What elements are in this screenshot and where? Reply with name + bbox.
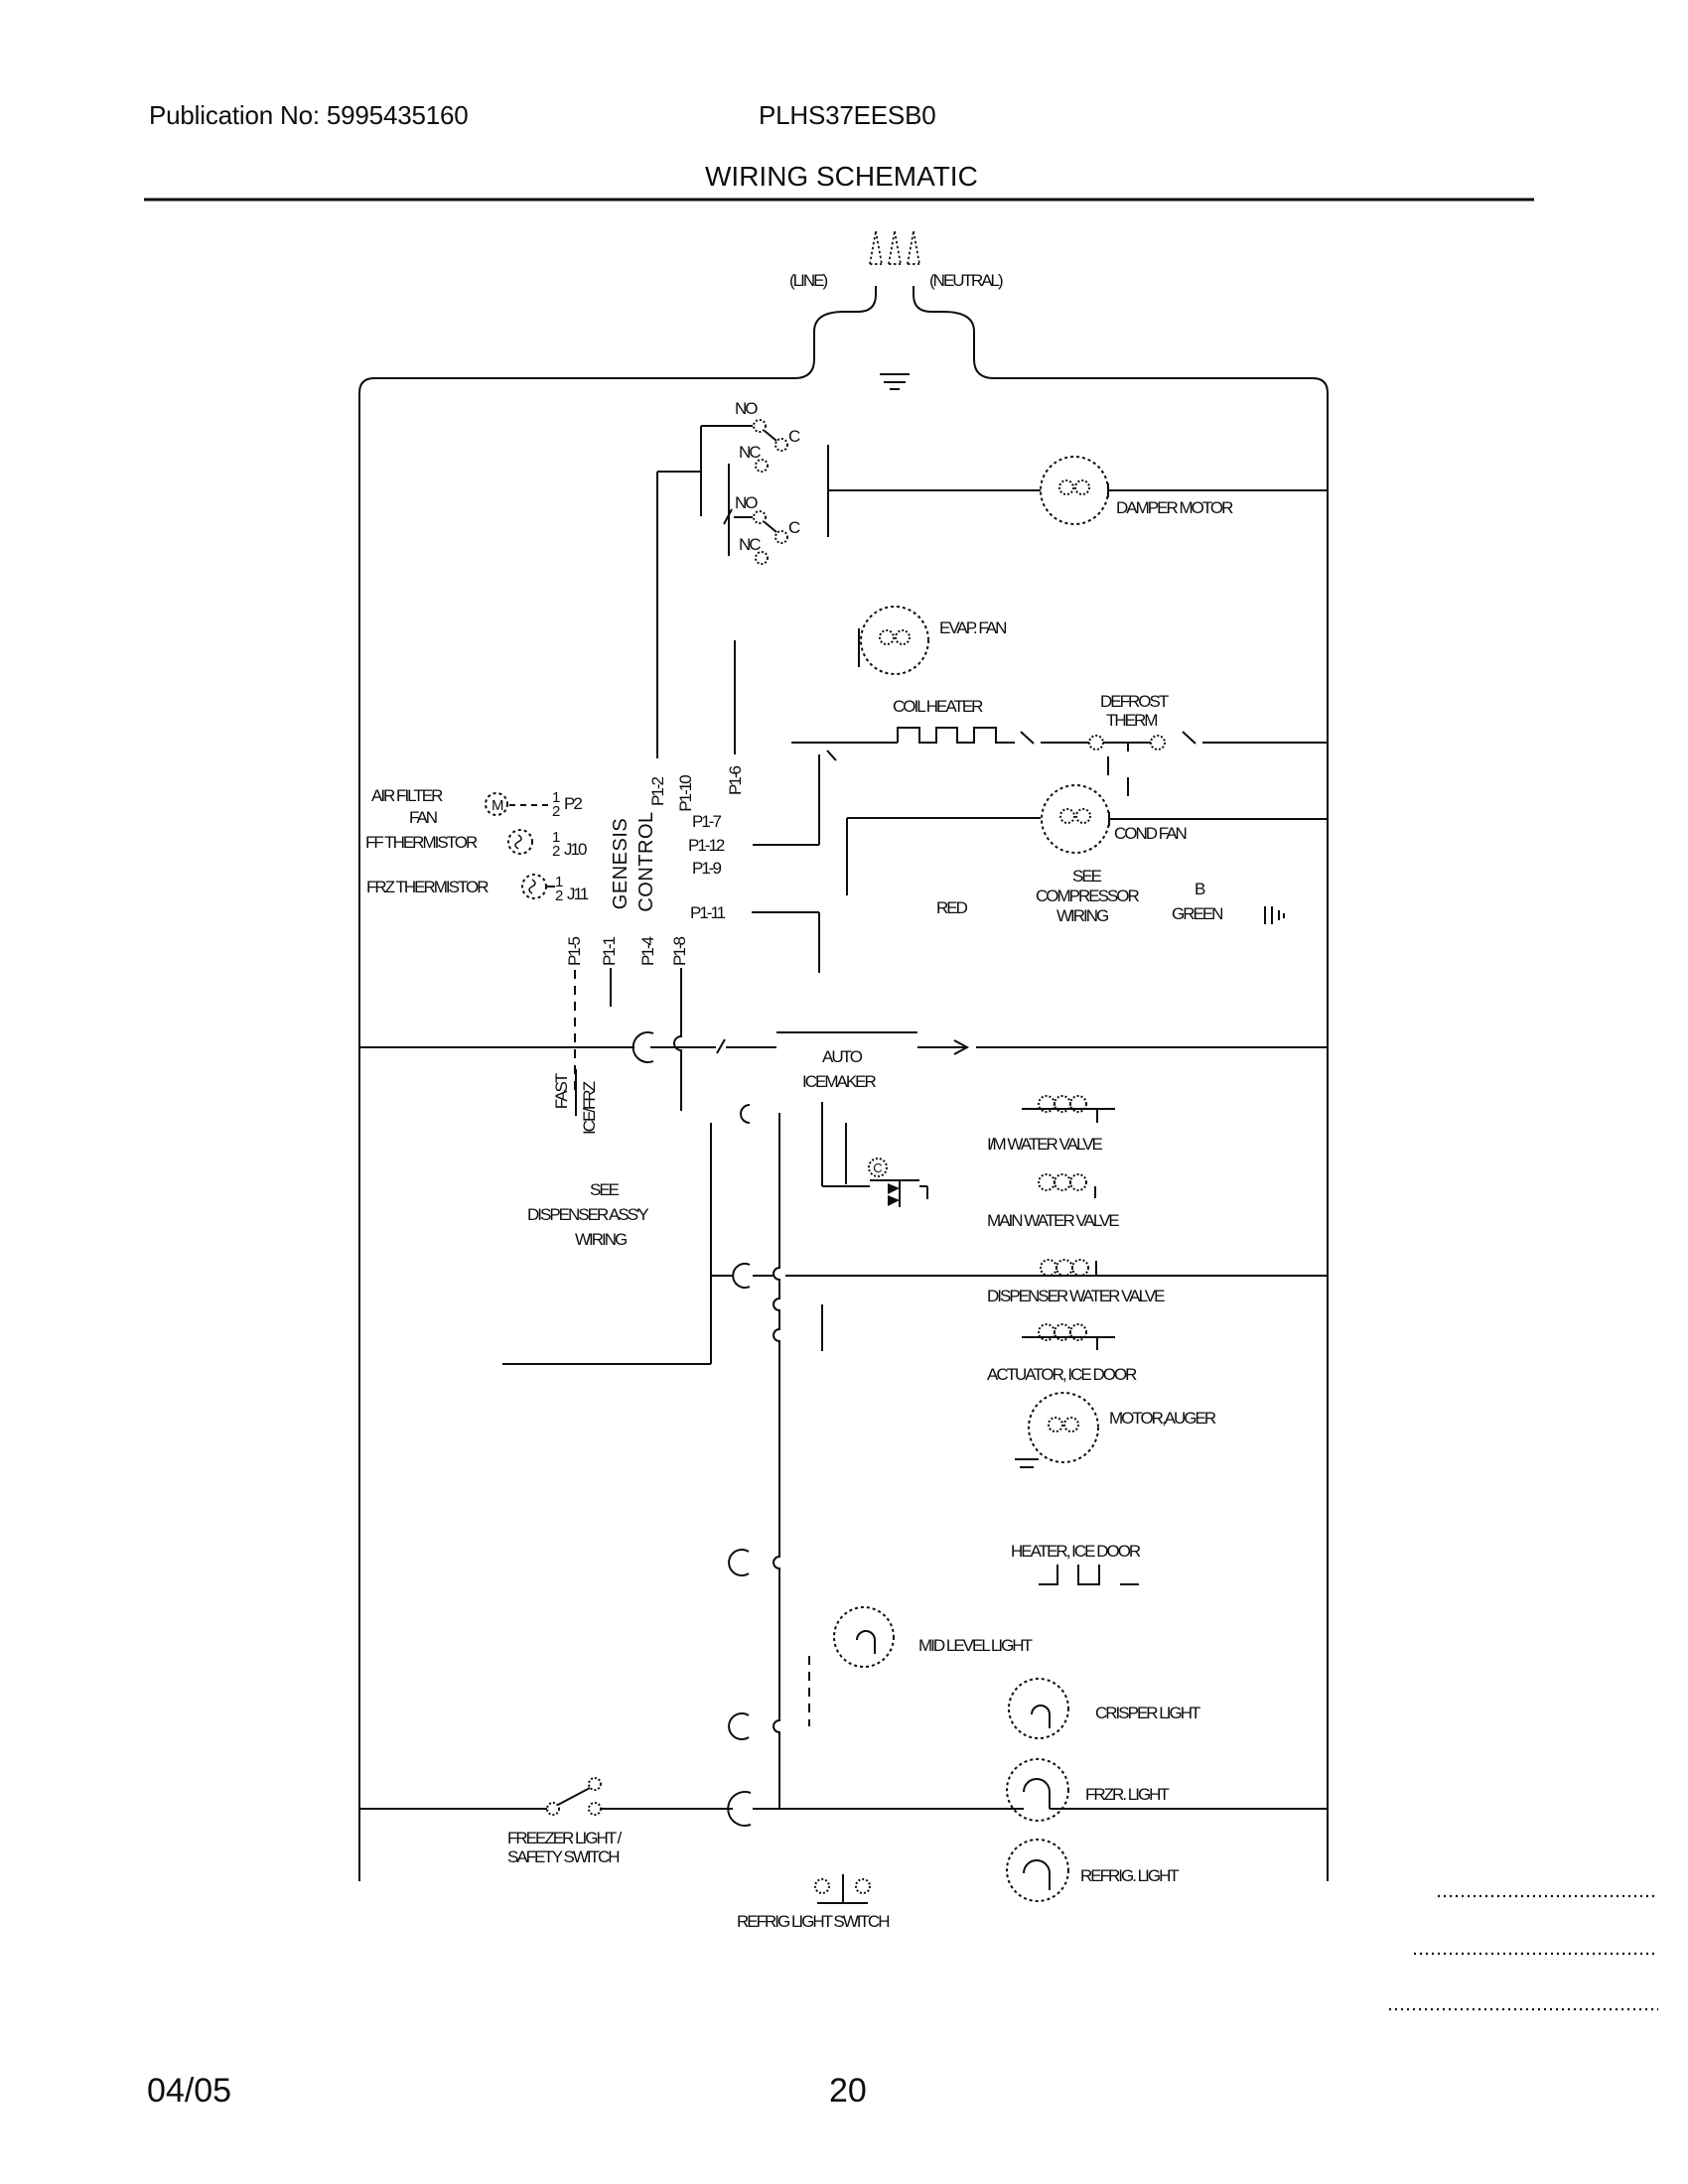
svg-text:J10: J10 (564, 840, 587, 859)
svg-text:REFRIG. LIGHT: REFRIG. LIGHT (1080, 1866, 1179, 1885)
svg-text:FREEZER LIGHT /: FREEZER LIGHT / (507, 1829, 623, 1847)
svg-text:WIRING SCHEMATIC: WIRING SCHEMATIC (705, 161, 978, 192)
svg-text:NC: NC (739, 535, 761, 554)
svg-text:P2: P2 (564, 794, 582, 813)
svg-text:P1-1: P1-1 (600, 937, 619, 966)
svg-text:P1-7: P1-7 (692, 812, 721, 831)
svg-text:GREEN: GREEN (1172, 904, 1222, 923)
svg-text:FF THERMISTOR: FF THERMISTOR (365, 833, 478, 852)
svg-text:AIR FILTER: AIR FILTER (371, 786, 443, 805)
svg-text:REFRIG LIGHT SWITCH: REFRIG LIGHT SWITCH (737, 1912, 889, 1931)
svg-text:DEFROST: DEFROST (1100, 692, 1169, 711)
svg-text:M: M (492, 797, 503, 814)
svg-text:P1-6: P1-6 (726, 766, 745, 795)
svg-text:COMPRESSOR: COMPRESSOR (1036, 887, 1140, 905)
svg-text:DAMPER MOTOR: DAMPER MOTOR (1116, 498, 1233, 517)
svg-text:SAFETY SWITCH: SAFETY SWITCH (507, 1847, 619, 1866)
svg-text:04/05: 04/05 (147, 2072, 231, 2110)
svg-text:2: 2 (552, 803, 560, 820)
svg-text:EVAP. FAN: EVAP. FAN (939, 618, 1006, 637)
svg-text:P1-4: P1-4 (638, 937, 657, 966)
svg-text:FAST: FAST (552, 1073, 571, 1109)
svg-text:RED: RED (936, 898, 968, 917)
svg-text:MOTOR,AUGER: MOTOR,AUGER (1109, 1409, 1216, 1428)
svg-text:NO: NO (735, 493, 758, 512)
svg-text:P1-9: P1-9 (692, 859, 721, 878)
svg-text:SEE: SEE (1072, 867, 1102, 886)
svg-text:MID LEVEL LIGHT: MID LEVEL LIGHT (918, 1636, 1033, 1655)
svg-text:AUTO: AUTO (822, 1047, 863, 1066)
svg-text:FAN: FAN (409, 808, 437, 827)
svg-text:(NEUTRAL): (NEUTRAL) (929, 271, 1003, 290)
svg-text:CRISPER LIGHT: CRISPER LIGHT (1095, 1704, 1200, 1722)
svg-text:2: 2 (555, 887, 563, 904)
svg-text:J11: J11 (567, 885, 589, 903)
svg-text:DISPENSER ASS'Y: DISPENSER ASS'Y (527, 1205, 648, 1224)
svg-text:ACTUATOR, ICE DOOR: ACTUATOR, ICE DOOR (987, 1365, 1137, 1384)
svg-text:20: 20 (829, 2072, 867, 2110)
svg-text:2: 2 (552, 843, 560, 860)
svg-text:NC: NC (739, 443, 761, 462)
svg-text:COND FAN: COND FAN (1114, 824, 1187, 843)
svg-text:P1-12: P1-12 (688, 836, 725, 855)
svg-text:DISPENSER WATER VALVE: DISPENSER WATER VALVE (987, 1287, 1165, 1305)
svg-text:WIRING: WIRING (1056, 906, 1108, 925)
svg-text:SEE: SEE (590, 1180, 620, 1199)
svg-text:Publication No: 5995435160: Publication No: 5995435160 (149, 100, 469, 130)
svg-text:P1-11: P1-11 (690, 903, 726, 922)
svg-text:P1-5: P1-5 (565, 937, 584, 966)
svg-text:GENESIS: GENESIS (610, 818, 632, 909)
svg-text:MAIN WATER VALVE: MAIN WATER VALVE (987, 1211, 1119, 1230)
svg-text:(LINE): (LINE) (789, 271, 827, 290)
svg-text:I/M WATER VALVE: I/M WATER VALVE (987, 1135, 1102, 1154)
svg-text:CONTROL: CONTROL (635, 811, 657, 911)
svg-text:C: C (873, 1160, 882, 1175)
svg-text:P1-2: P1-2 (648, 777, 667, 806)
svg-text:C: C (788, 518, 800, 537)
svg-text:NO: NO (735, 399, 758, 418)
svg-text:P1-10: P1-10 (676, 775, 695, 812)
svg-text:ICE/FRZ: ICE/FRZ (580, 1081, 599, 1135)
svg-text:COIL HEATER: COIL HEATER (893, 697, 983, 716)
svg-text:THERM: THERM (1106, 711, 1157, 730)
svg-text:FRZ THERMISTOR: FRZ THERMISTOR (366, 878, 489, 896)
svg-text:PLHS37EESB0: PLHS37EESB0 (759, 100, 935, 130)
svg-text:WIRING: WIRING (575, 1230, 627, 1249)
svg-text:HEATER, ICE DOOR: HEATER, ICE DOOR (1011, 1542, 1141, 1561)
svg-text:FRZR. LIGHT: FRZR. LIGHT (1085, 1785, 1169, 1804)
svg-text:P1-8: P1-8 (670, 937, 689, 966)
svg-text:B: B (1195, 880, 1205, 898)
svg-text:ICEMAKER: ICEMAKER (802, 1072, 877, 1091)
svg-text:C: C (788, 427, 800, 446)
